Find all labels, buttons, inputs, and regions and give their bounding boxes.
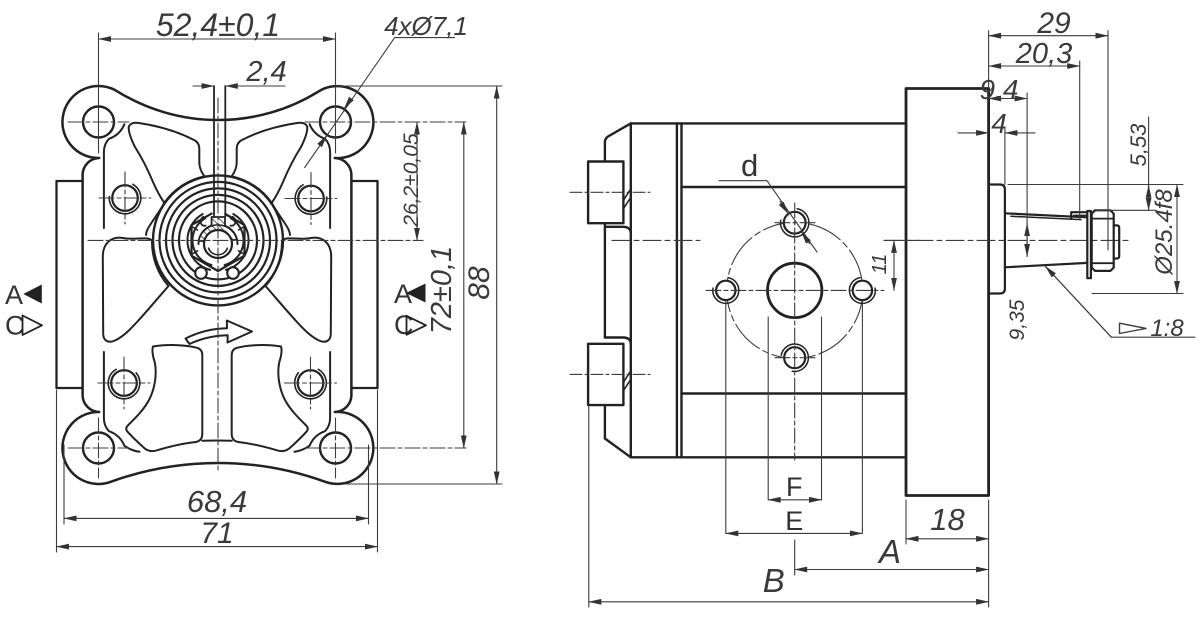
- 1:8 leader: [1045, 266, 1195, 337]
- svg-text:11: 11: [869, 254, 891, 275]
- circlip ear holes: [195, 267, 207, 279]
- svg-text:88: 88: [463, 266, 496, 300]
- inner cover edge: [630, 123, 632, 457]
- svg-text:E: E: [785, 506, 803, 536]
- svg-text:C: C: [394, 310, 414, 340]
- dimension texts left view: [5, 7, 496, 550]
- svg-text:71: 71: [200, 517, 233, 550]
- E / F: [725, 300, 727, 533]
- boss thread hatches: [624, 189, 631, 391]
- top edge: [631, 122, 905, 124]
- nut chamfer facets: [192, 227, 244, 255]
- svg-text:4xØ7,1: 4xØ7,1: [384, 11, 468, 41]
- view arrow C right: [407, 316, 427, 335]
- web lines upper-left: [104, 124, 125, 228]
- key (hatched): [212, 217, 225, 233]
- circlip arcs: [226, 214, 249, 270]
- svg-text:9,35: 9,35: [1006, 299, 1029, 340]
- lock washer: [1087, 211, 1091, 278]
- bottom dims: [905, 500, 907, 544]
- top-left chamfer: [605, 123, 631, 142]
- lower boss: [588, 344, 623, 405]
- d leader: [719, 181, 817, 252]
- svg-text:Ø25.4f8: Ø25.4f8: [1151, 189, 1178, 276]
- 9,35 arrows: [1026, 224, 1028, 257]
- svg-text:52,4±0,1: 52,4±0,1: [156, 7, 280, 43]
- inner bottom arc under rib: [202, 439, 231, 441]
- main outline: cover + body: [588, 89, 989, 496]
- svg-text:4: 4: [991, 108, 1007, 139]
- svg-text:29: 29: [1036, 7, 1071, 40]
- pocket upper-right: [232, 123, 308, 203]
- svg-text:2,4: 2,4: [245, 56, 286, 88]
- bolt circle dashed: [727, 222, 863, 358]
- web lines lower-left: [104, 352, 140, 452]
- svg-text:C: C: [5, 311, 25, 341]
- nut hexagon: [192, 214, 245, 271]
- pump body rectangle behind flange: [57, 181, 378, 388]
- mounting flange plate: [906, 89, 989, 496]
- section arrow A right: [406, 284, 426, 303]
- svg-text:F: F: [786, 472, 803, 502]
- dims / extension lines: [589, 31, 1195, 607]
- svg-text:20,3: 20,3: [1015, 38, 1072, 70]
- corner holes: [83, 107, 351, 464]
- pocket middle-left: [103, 238, 169, 342]
- joint verticals: [676, 123, 678, 457]
- 5,53: [1096, 209, 1156, 211]
- shaft: [989, 185, 1120, 294]
- shaft end stub: [1114, 225, 1120, 258]
- rotation arrow: [186, 321, 253, 345]
- svg-text:d: d: [741, 148, 758, 183]
- step below upper boss: [605, 223, 631, 337]
- web lines lower-right: [295, 352, 331, 452]
- svg-text:A: A: [5, 280, 23, 310]
- taper: [1005, 213, 1087, 217]
- shaft axis: [612, 239, 1128, 241]
- web lines upper-right: [310, 124, 331, 228]
- hub rings: [153, 175, 283, 305]
- face centerlines: [706, 203, 884, 460]
- dia 25.4: [1008, 184, 1183, 186]
- nut: [1092, 210, 1114, 271]
- svg-text:5,53: 5,53: [1126, 123, 1151, 167]
- shaft bore arc: [209, 248, 228, 255]
- face box lines: [682, 186, 905, 188]
- key slot lines: [213, 86, 215, 217]
- view arrow C left: [23, 316, 43, 336]
- face holes: [768, 263, 822, 317]
- washer tab over key: [1071, 212, 1087, 219]
- extension + dimension lines: [57, 33, 503, 552]
- seal washer disc: [989, 185, 1005, 294]
- svg-text:72±0,1: 72±0,1: [426, 246, 458, 335]
- 11: [884, 239, 920, 241]
- taper symbol: [1120, 323, 1147, 333]
- section arrow A left: [23, 285, 42, 304]
- cover left edge above upper boss: [604, 142, 606, 162]
- pocket middle-right: [266, 238, 332, 342]
- svg-text:1:8: 1:8: [1150, 315, 1184, 342]
- svg-text:B: B: [763, 562, 785, 599]
- pocket lower-left: [126, 345, 202, 451]
- svg-text:A: A: [877, 533, 901, 570]
- svg-text:18: 18: [930, 502, 965, 537]
- corridor line upper-left: [146, 203, 164, 235]
- pocket upper-left: [129, 123, 205, 203]
- shaft circle: [204, 230, 232, 258]
- upper boss: [588, 162, 623, 224]
- svg-text:9.4: 9.4: [980, 74, 1019, 105]
- step above lower boss: [605, 338, 631, 344]
- boss centerlines: [570, 192, 650, 374]
- pocket lower-right: [232, 345, 308, 451]
- svg-text:68,4: 68,4: [187, 484, 247, 519]
- key notch arc: [199, 225, 238, 245]
- small holes with spotface arcs: [111, 185, 324, 396]
- flange outer outline: [62, 86, 373, 484]
- svg-text:26,2±0,05: 26,2±0,05: [400, 133, 423, 228]
- bottom edge: [631, 456, 905, 458]
- centerlines: [68, 98, 466, 478]
- cover left edge below lower boss: [605, 405, 631, 457]
- corridor line upper-right: [272, 203, 290, 235]
